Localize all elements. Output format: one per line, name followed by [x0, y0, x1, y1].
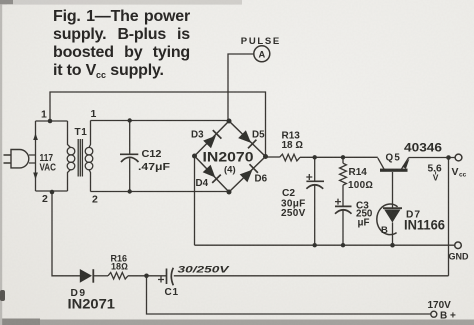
bridge rectifier diamond — [195, 121, 266, 192]
resistor R16 — [108, 273, 128, 280]
plug P1 body — [11, 150, 29, 168]
wire top boost rail primary node1 to bridge right vertex — [50, 92, 266, 156]
plug leads to rail — [29, 155, 36, 163]
zener D7 arrow — [384, 210, 400, 223]
current arrow down on line rail — [33, 173, 38, 180]
junction C12 top — [128, 118, 132, 122]
wire Q5 collector to Vcc terminal — [409, 157, 456, 159]
transistor Q5 emitter lead — [378, 158, 384, 169]
wire zener to ground rail — [392, 223, 394, 246]
wire C2 top lead — [314, 157, 316, 181]
pulse point circle A — [254, 46, 270, 62]
junction C2 ground — [313, 243, 317, 247]
junction R14 top — [341, 155, 345, 159]
diode D6 arrow — [240, 170, 253, 183]
junction B+ tap — [144, 274, 149, 279]
wire primary loop left rail — [35, 121, 37, 191]
wire pulse tap — [228, 54, 254, 121]
plus sign C2 — [306, 174, 312, 180]
junction C12 bottom — [128, 189, 132, 193]
5.6V arrow tick — [435, 172, 437, 175]
resistor R14 — [340, 163, 347, 185]
wire Vcc vertical down — [448, 158, 450, 276]
plug prongs — [4, 155, 12, 163]
plus sign C1 — [158, 277, 164, 283]
wire R14 leads and C3 top lead — [342, 157, 344, 206]
transformer T1 secondary winding — [89, 121, 91, 148]
junction bridge left vertex — [192, 154, 197, 159]
wire ground rail — [195, 244, 455, 246]
junction bridge bottom vertex — [227, 190, 232, 195]
capacitor C2 — [306, 180, 324, 182]
junction node primary 2 — [50, 190, 55, 195]
diode D4 arrow — [203, 165, 216, 178]
caption — [53, 8, 190, 84]
B+ output terminal circle — [431, 311, 437, 317]
junction Vcc node — [446, 155, 451, 160]
wire from node 2 down to line rectifier row — [52, 192, 81, 276]
transformer T1 primary winding — [68, 121, 71, 148]
wire bridge right vertex to R13 — [266, 156, 280, 158]
plus sign C3 — [335, 199, 341, 205]
wire R16 to C1 — [128, 275, 166, 277]
wire C2 bottom lead — [314, 185, 316, 245]
diode D5 arrow — [238, 130, 251, 143]
capacitor C12 — [129, 121, 131, 155]
zener D7 circle — [377, 204, 398, 235]
transistor Q5 base bar — [380, 169, 408, 172]
diode D9 arrow — [80, 269, 92, 283]
capacitor C3 — [335, 205, 352, 207]
diode D3 arrow — [203, 136, 216, 149]
transistor Q5 emitter arrowhead — [402, 159, 409, 169]
wire R13 to Q5 emitter — [300, 156, 378, 158]
junction bridge top vertex — [227, 119, 232, 124]
zener D7 cathode bar — [383, 207, 402, 209]
capacitor C1 — [166, 269, 168, 285]
wire secondary bottom to bridge bottom vertex — [91, 191, 230, 193]
wire primary loop top — [36, 120, 68, 122]
wire B+ line — [147, 276, 431, 314]
junction C2 top — [313, 155, 317, 159]
resistor R13 — [280, 154, 301, 161]
transistor Q5 collector lead — [402, 158, 409, 170]
wire D9 to R16 — [94, 275, 109, 277]
wire C1 right to Vcc vertical — [174, 275, 449, 277]
wire secondary top to bridge top vertex — [91, 120, 230, 122]
current arrow up on line rail — [33, 133, 38, 140]
junction zener ground — [390, 243, 395, 248]
wire Q5 base to zener — [392, 172, 394, 208]
junction bridge right vertex — [263, 154, 268, 159]
transformer T1 core — [78, 139, 82, 177]
GND output terminal circle — [455, 242, 462, 249]
Vcc output terminal circle — [455, 154, 462, 161]
wire bridge left vertex down to ground rail — [194, 156, 196, 245]
wire primary loop bottom — [36, 190, 68, 192]
junction node primary 1 — [48, 119, 53, 124]
junction C3 ground — [341, 243, 345, 247]
wire C3 bottom lead — [342, 210, 344, 245]
